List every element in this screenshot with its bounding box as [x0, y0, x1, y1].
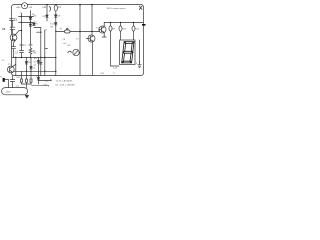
junction — [21, 57, 22, 58]
T2 base stub — [87, 38, 91, 40]
junction x92 top — [91, 4, 93, 6]
IC1 jog — [45, 48, 48, 50]
wire D4 drop — [46, 5, 48, 21]
wire vertical x31 lower — [30, 58, 32, 85]
T2 emitter down — [92, 42, 94, 76]
drop 2 wire — [120, 23, 122, 41]
svg-text:C8: C8 — [63, 39, 67, 41]
drop 3 wire — [133, 23, 135, 41]
ground stem below cable — [26, 94, 28, 97]
left rail below frame — [12, 76, 14, 88]
junction x80 top — [79, 4, 81, 6]
svg-text:230: 230 — [29, 7, 33, 9]
svg-text:010: 010 — [101, 73, 105, 75]
svg-text:R10: R10 — [122, 29, 127, 31]
wire horizontal upper-left — [19, 15, 34, 17]
neon lamp La1 arc — [49, 6, 50, 11]
T3 collector up — [103, 23, 105, 27]
capacitor C2 plate top x30.5 — [29, 44, 32, 46]
svg-text:R6: R6 — [34, 52, 38, 54]
svg-text:R: R — [46, 30, 48, 32]
svg-text:T1,T2 = BC547B: T1,T2 = BC547B — [56, 81, 73, 83]
capacitor C7 below T4 — [11, 47, 15, 49]
ground right symbol — [138, 65, 142, 68]
connector K1 pins on left rail — [10, 18, 14, 20]
transistor T3 — [99, 26, 106, 33]
junction — [21, 22, 22, 23]
svg-text:R11: R11 — [135, 29, 140, 31]
display LD1 box — [120, 40, 136, 65]
junction — [30, 57, 31, 58]
wire below C7 — [13, 49, 15, 58]
resistor R2 small — [21, 79, 23, 82]
wire from terminal — [5, 80, 9, 88]
svg-text:La1: La1 — [43, 7, 48, 9]
ground symbol — [25, 95, 29, 98]
junction d2 — [120, 22, 121, 23]
wire vertical x21.5 — [21, 13, 23, 58]
wire fuse drop — [55, 5, 57, 14]
junction d1 — [110, 22, 111, 23]
junction — [40, 57, 41, 58]
junction — [15, 57, 16, 58]
junction d3 — [133, 22, 134, 23]
svg-text:D6: D6 — [33, 67, 37, 69]
svg-text:F1: F1 — [58, 7, 61, 9]
mains symbol X — [139, 6, 142, 10]
svg-text:D3: D3 — [35, 24, 39, 26]
junction center — [55, 31, 56, 32]
IC1 vertical line b — [44, 30, 46, 76]
diode D8 below border — [37, 78, 40, 81]
capacitor C4 on rail — [10, 80, 14, 82]
svg-text:kWh: kWh — [16, 7, 21, 9]
junction — [21, 16, 22, 17]
transistor T2 — [88, 35, 95, 42]
center rail x55.8 — [55, 14, 57, 76]
junction — [21, 30, 22, 31]
svg-text:C5: C5 — [2, 60, 6, 62]
wire vertical x80 — [79, 5, 81, 76]
wire display right — [139, 40, 141, 65]
input stub y32 — [37, 31, 41, 33]
T4 emitter wire — [14, 40, 16, 46]
resistor R9 oval — [109, 26, 112, 31]
resistor R11 oval — [132, 26, 135, 31]
node A junction — [46, 4, 48, 6]
svg-text:LD1: LD1 — [114, 68, 119, 70]
svg-text:R8: R8 — [50, 26, 54, 28]
arc left of lamp — [68, 51, 72, 53]
resistor R4 small — [30, 79, 32, 82]
resistor R10 oval — [119, 26, 122, 31]
svg-text:230 V mains monitor: 230 V mains monitor — [107, 7, 126, 10]
wire horizontal y22.5 — [104, 22, 143, 24]
svg-text:R5: R5 — [34, 58, 38, 60]
IC1 vertical line a — [40, 28, 42, 76]
capacitor C3 plates — [20, 51, 24, 53]
lamp La2 — [73, 49, 79, 55]
svg-text:P1: P1 — [60, 28, 63, 30]
kWh meter M1 — [22, 3, 28, 9]
junction — [30, 71, 31, 72]
capacitor C6 on left rail — [10, 27, 15, 29]
junction — [44, 71, 45, 72]
junction — [40, 32, 41, 33]
wire stub y85.5 — [32, 85, 50, 87]
resistor R1 zigzag — [29, 47, 32, 58]
mains terminal blob — [3, 78, 5, 82]
junction x80 mid — [79, 31, 80, 32]
svg-text:R12: R12 — [17, 77, 22, 79]
diode D3 — [33, 23, 36, 26]
svg-text:230V: 230V — [6, 92, 12, 94]
transistor T4 — [10, 34, 17, 41]
wire horizontal y71.3 — [14, 70, 56, 72]
lamp stub — [78, 52, 81, 54]
resistor R3 small — [26, 79, 28, 82]
svg-text:N: N — [0, 77, 2, 79]
trimpot P1 body — [65, 30, 71, 33]
junction center3 — [55, 71, 56, 72]
diode D9 — [55, 15, 58, 17]
svg-text:12V: 12V — [67, 45, 71, 47]
diode D4 top — [46, 15, 49, 18]
T3 base wire — [99, 30, 101, 32]
wire vertical x15.8 — [15, 58, 17, 76]
junction — [30, 22, 31, 23]
svg-text:T1: T1 — [8, 64, 11, 66]
diode D10 — [55, 23, 58, 26]
junction — [30, 16, 31, 17]
junction — [26, 71, 27, 72]
svg-text:C2: C2 — [24, 45, 28, 47]
svg-text:L: L — [48, 86, 50, 88]
diode D6 — [30, 67, 33, 70]
rail gap fix — [12, 20, 14, 34]
diode D2 on x30.5 — [29, 24, 32, 26]
svg-text:D1...D10 = 1N4148: D1...D10 = 1N4148 — [56, 85, 76, 87]
capacitor C2 plate top x21.5 — [20, 44, 23, 46]
diode D7 — [37, 61, 40, 64]
svg-text:C6: C6 — [2, 29, 6, 31]
mains cable stadium — [2, 88, 28, 95]
junction center2 — [55, 57, 56, 58]
T1 collector wire — [12, 64, 15, 67]
T3 emitter to bar — [103, 32, 105, 36]
wire vertical x21.5 bottom — [21, 71, 23, 84]
svg-text:R7: R7 — [34, 65, 38, 67]
svg-text:C3: C3 — [15, 53, 19, 55]
seven segment digit 8 — [122, 42, 134, 63]
svg-text:D9: D9 — [57, 15, 61, 17]
drop 1 wire — [111, 23, 120, 67]
svg-text:D7: D7 — [34, 62, 38, 64]
diode D5 — [25, 62, 28, 65]
T4 collector wire — [15, 31, 21, 35]
border frame — [12, 5, 144, 76]
wire vertical x92 top — [91, 5, 93, 35]
emitter bar — [102, 36, 106, 38]
wire vertical x30.5 — [30, 11, 32, 45]
wire horizontal upper-left 2 — [19, 22, 34, 24]
svg-text:cc: cc — [113, 72, 116, 74]
svg-text:R9: R9 — [112, 29, 116, 31]
svg-text:C1: C1 — [14, 19, 18, 21]
junction x92 mid — [91, 31, 92, 32]
bus wire y84 — [22, 83, 32, 85]
node B junction — [55, 4, 57, 6]
wire horizontal y31.5 — [56, 31, 99, 33]
transistor T1 — [7, 66, 14, 73]
wire vertical x26.5 — [26, 58, 28, 85]
wire vertical x38.5 — [38, 58, 40, 85]
wire mid horizontal y57.5 — [12, 57, 56, 59]
arrowhead — [139, 62, 140, 64]
diode D3 feed — [34, 27, 41, 29]
fuse F1 — [54, 5, 57, 11]
component tick on bus — [40, 63, 42, 65]
stem to cable — [26, 84, 28, 88]
trimpot P1 wiper — [66, 28, 68, 30]
diode D1 on x30.5 — [29, 17, 32, 19]
wire stub y80.5 — [39, 80, 52, 82]
junction — [44, 57, 45, 58]
plus mark — [142, 24, 146, 26]
svg-text:T2: T2 — [76, 39, 79, 41]
